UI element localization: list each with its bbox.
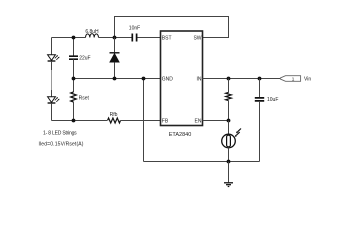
wire diode anode to GND rail — [114, 62, 116, 78]
resistor Rset — [71, 92, 90, 102]
svg-text:Rset: Rset — [79, 95, 90, 101]
wire 22uF to GND node to Rset — [73, 59, 75, 92]
node Rset bottom — [72, 119, 76, 123]
node ground rail junction — [227, 160, 231, 164]
wire GND branch down — [143, 79, 145, 162]
LED D2 — [48, 97, 60, 103]
svg-text:1: 1 — [292, 76, 295, 81]
op-amp U1 ETA2840 IC body — [161, 31, 203, 138]
wire 10uF to ground rail — [259, 101, 261, 162]
LED D1 — [48, 55, 60, 61]
wire 10uF column top — [259, 79, 261, 98]
wire bottom ground rail — [144, 161, 260, 163]
svg-text:BST: BST — [162, 35, 172, 41]
svg-text:Vin: Vin — [304, 76, 311, 82]
svg-text:GND: GND — [162, 76, 174, 82]
capacitor C2 10nF — [129, 26, 140, 42]
svg-text:1- 8 LED Strings: 1- 8 LED Strings — [43, 130, 77, 136]
node EN junction — [227, 119, 231, 123]
wire LED column top — [51, 38, 53, 55]
wire photo sensor to ground rail — [228, 148, 230, 162]
node IN-resistor junction — [227, 77, 231, 81]
node GND branch junction — [142, 77, 146, 81]
wire LED string continuation (dark-grey-dark) — [51, 62, 53, 70]
wire top output rail left of inductor — [52, 37, 86, 39]
node 22uF top — [72, 36, 76, 40]
wire ground stem — [228, 162, 230, 183]
wire diode column top — [114, 38, 116, 53]
resistor R2 (EN pull) — [226, 93, 232, 101]
capacitor C1 22uF — [69, 56, 91, 62]
wire LED column bottom — [51, 104, 53, 121]
svg-text:SW: SW — [193, 35, 201, 41]
wire inductor to 10nF cap — [99, 37, 132, 39]
wire SW loop from SW node up over to SW pin — [115, 17, 229, 38]
svg-text:Rfb: Rfb — [110, 112, 118, 118]
svg-text:22uF: 22uF — [79, 56, 90, 62]
wire 10nF to BST pin — [138, 37, 161, 39]
wire resistor column bottom — [228, 101, 230, 121]
node SW junction — [113, 36, 117, 40]
wire middle column top to 22uF — [73, 38, 75, 57]
wire IN rail to Vin tag — [203, 78, 281, 80]
svg-text:ETA2840: ETA2840 — [169, 132, 192, 138]
diode D3 catch diode — [110, 53, 120, 62]
svg-text:EN: EN — [195, 118, 202, 124]
node Vin port tag — [280, 76, 311, 83]
inductor L1 6.8uH — [85, 29, 99, 38]
wire EN junction to photo sensor — [228, 121, 230, 135]
node IN-10uF junction — [258, 77, 262, 81]
node GND-mid column — [72, 77, 76, 81]
svg-text:Iled=0.15V/Rset(A): Iled=0.15V/Rset(A) — [39, 142, 84, 148]
wire GND rail — [74, 78, 161, 80]
svg-text:FB: FB — [162, 118, 169, 124]
wire LED bottom rail to Rfb — [52, 120, 108, 122]
svg-text:6.8uH: 6.8uH — [85, 29, 99, 35]
node diode-GND junction — [113, 77, 117, 81]
wire EN pin to junction — [203, 120, 229, 122]
svg-text:10uF: 10uF — [267, 97, 278, 103]
svg-text:10nF: 10nF — [129, 26, 140, 32]
wire Rfb to FB pin — [121, 120, 161, 122]
wire Rset to bottom rail — [73, 102, 75, 121]
wire resistor column top — [228, 79, 230, 93]
capacitor C3 10uF — [255, 97, 279, 103]
photo sensor (light-dependent resistor) — [222, 129, 241, 148]
ground — [224, 183, 233, 187]
svg-text:IN: IN — [197, 76, 202, 82]
resistor Rfb — [108, 112, 121, 123]
